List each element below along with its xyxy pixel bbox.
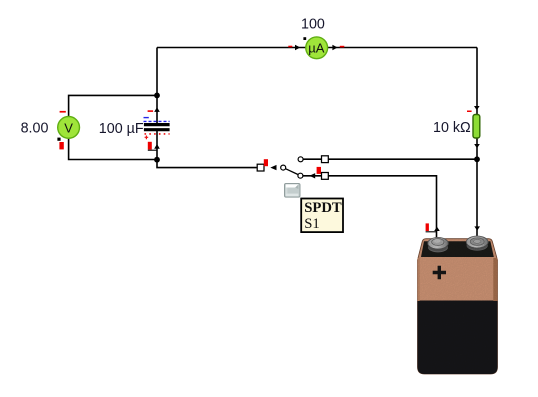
- ammeter reading 100: [301, 16, 325, 32]
- switch pivot contact circle: [281, 165, 286, 170]
- wire top horizontal from left branch to right branch: [157, 47, 477, 49]
- capacitor blue charge line: [144, 118, 170, 122]
- switch actuator button: [285, 184, 301, 198]
- switch label box SPDT S1: [301, 199, 343, 233]
- current arrow above capacitor pointing up: [154, 107, 160, 112]
- red current marker at switch pole: [264, 159, 268, 166]
- red marker below voltmeter: [59, 142, 63, 149]
- svg-text:V: V: [64, 120, 73, 135]
- battery positive terminal: [428, 237, 448, 252]
- svg-text:SPDT: SPDT: [304, 200, 342, 216]
- switch S1 pole terminal square: [257, 164, 264, 171]
- wire stub from bottom junction down and right to switch pole: [157, 160, 257, 168]
- wire switch lower throw right then down to battery positive terminal: [303, 176, 437, 240]
- svg-text:S1: S1: [304, 216, 320, 232]
- switch upper throw contact circle: [298, 157, 303, 162]
- svg-text:10 kΩ: 10 kΩ: [433, 120, 471, 136]
- ammeter U1: [306, 37, 328, 59]
- capacitor C1 100uF plates: [144, 125, 170, 130]
- wire left vertical upper (top wire down to capacitor top plate): [156, 48, 158, 124]
- wire voltmeter bottom branch: [69, 139, 157, 160]
- red current marker left of ammeter: [288, 46, 292, 48]
- wire right vertical lower (resistor to battery negative terminal): [476, 138, 478, 240]
- red current marker above resistor: [467, 111, 472, 113]
- switch blade: [286, 169, 299, 175]
- red current marker above capacitor: [148, 110, 154, 112]
- svg-text:100 µF: 100 µF: [99, 121, 144, 137]
- resistor R1 10k: [473, 115, 480, 139]
- battery terminal texture overlay: [428, 236, 488, 251]
- junction node right wire: [474, 156, 480, 162]
- battery negative terminal: [466, 236, 488, 251]
- junction node capacitor bottom: [154, 157, 160, 163]
- current arrow left of ammeter: [295, 45, 300, 50]
- red current marker below capacitor with tick: [148, 142, 157, 150]
- svg-text:100: 100: [301, 16, 325, 32]
- voltmeter U2: [58, 117, 80, 139]
- switch lower throw terminal square: [322, 173, 329, 180]
- switch upper throw terminal square: [322, 156, 329, 163]
- current arrow above resistor pointing down: [474, 106, 480, 110]
- red marker above voltmeter: [60, 111, 66, 113]
- battery texture overlay: [418, 239, 498, 374]
- current arrow below resistor pointing down: [474, 144, 480, 148]
- wire left vertical lower (capacitor bottom plate to junction): [156, 131, 158, 160]
- voltmeter reading 8.00: [21, 121, 49, 137]
- current arrow right of ammeter: [332, 45, 337, 50]
- resistor value label 10 kOhm: [433, 120, 471, 136]
- current arrow on pole wire pointing left: [270, 165, 276, 170]
- svg-text:µA: µA: [308, 41, 324, 56]
- red current marker at battery positive with tick: [426, 223, 437, 231]
- switch lower throw contact circle: [298, 173, 303, 178]
- battery plus symbol: [433, 266, 446, 279]
- wire switch upper throw to right vertical junction: [303, 158, 477, 160]
- current arrow above battery negative pointing down: [474, 226, 480, 230]
- junction node capacitor top: [154, 93, 160, 99]
- svg-text:8.00: 8.00: [21, 121, 49, 137]
- wire voltmeter top branch: [69, 95, 157, 116]
- wire right vertical upper (top wire to resistor): [476, 48, 478, 115]
- current arrow on lower throw wire pointing left: [309, 173, 315, 178]
- capacitor red charge line: [145, 134, 170, 139]
- current arrow below capacitor pointing up: [154, 144, 160, 149]
- voltmeter probe dot: [57, 138, 60, 141]
- red current marker right of ammeter: [340, 46, 345, 48]
- battery B1 9V body: [418, 239, 498, 374]
- red current marker on lower throw wire: [317, 167, 321, 174]
- current arrow above battery positive pointing up: [434, 227, 440, 231]
- capacitor value label 100 uF: [99, 121, 144, 137]
- ammeter probe dot: [303, 37, 306, 40]
